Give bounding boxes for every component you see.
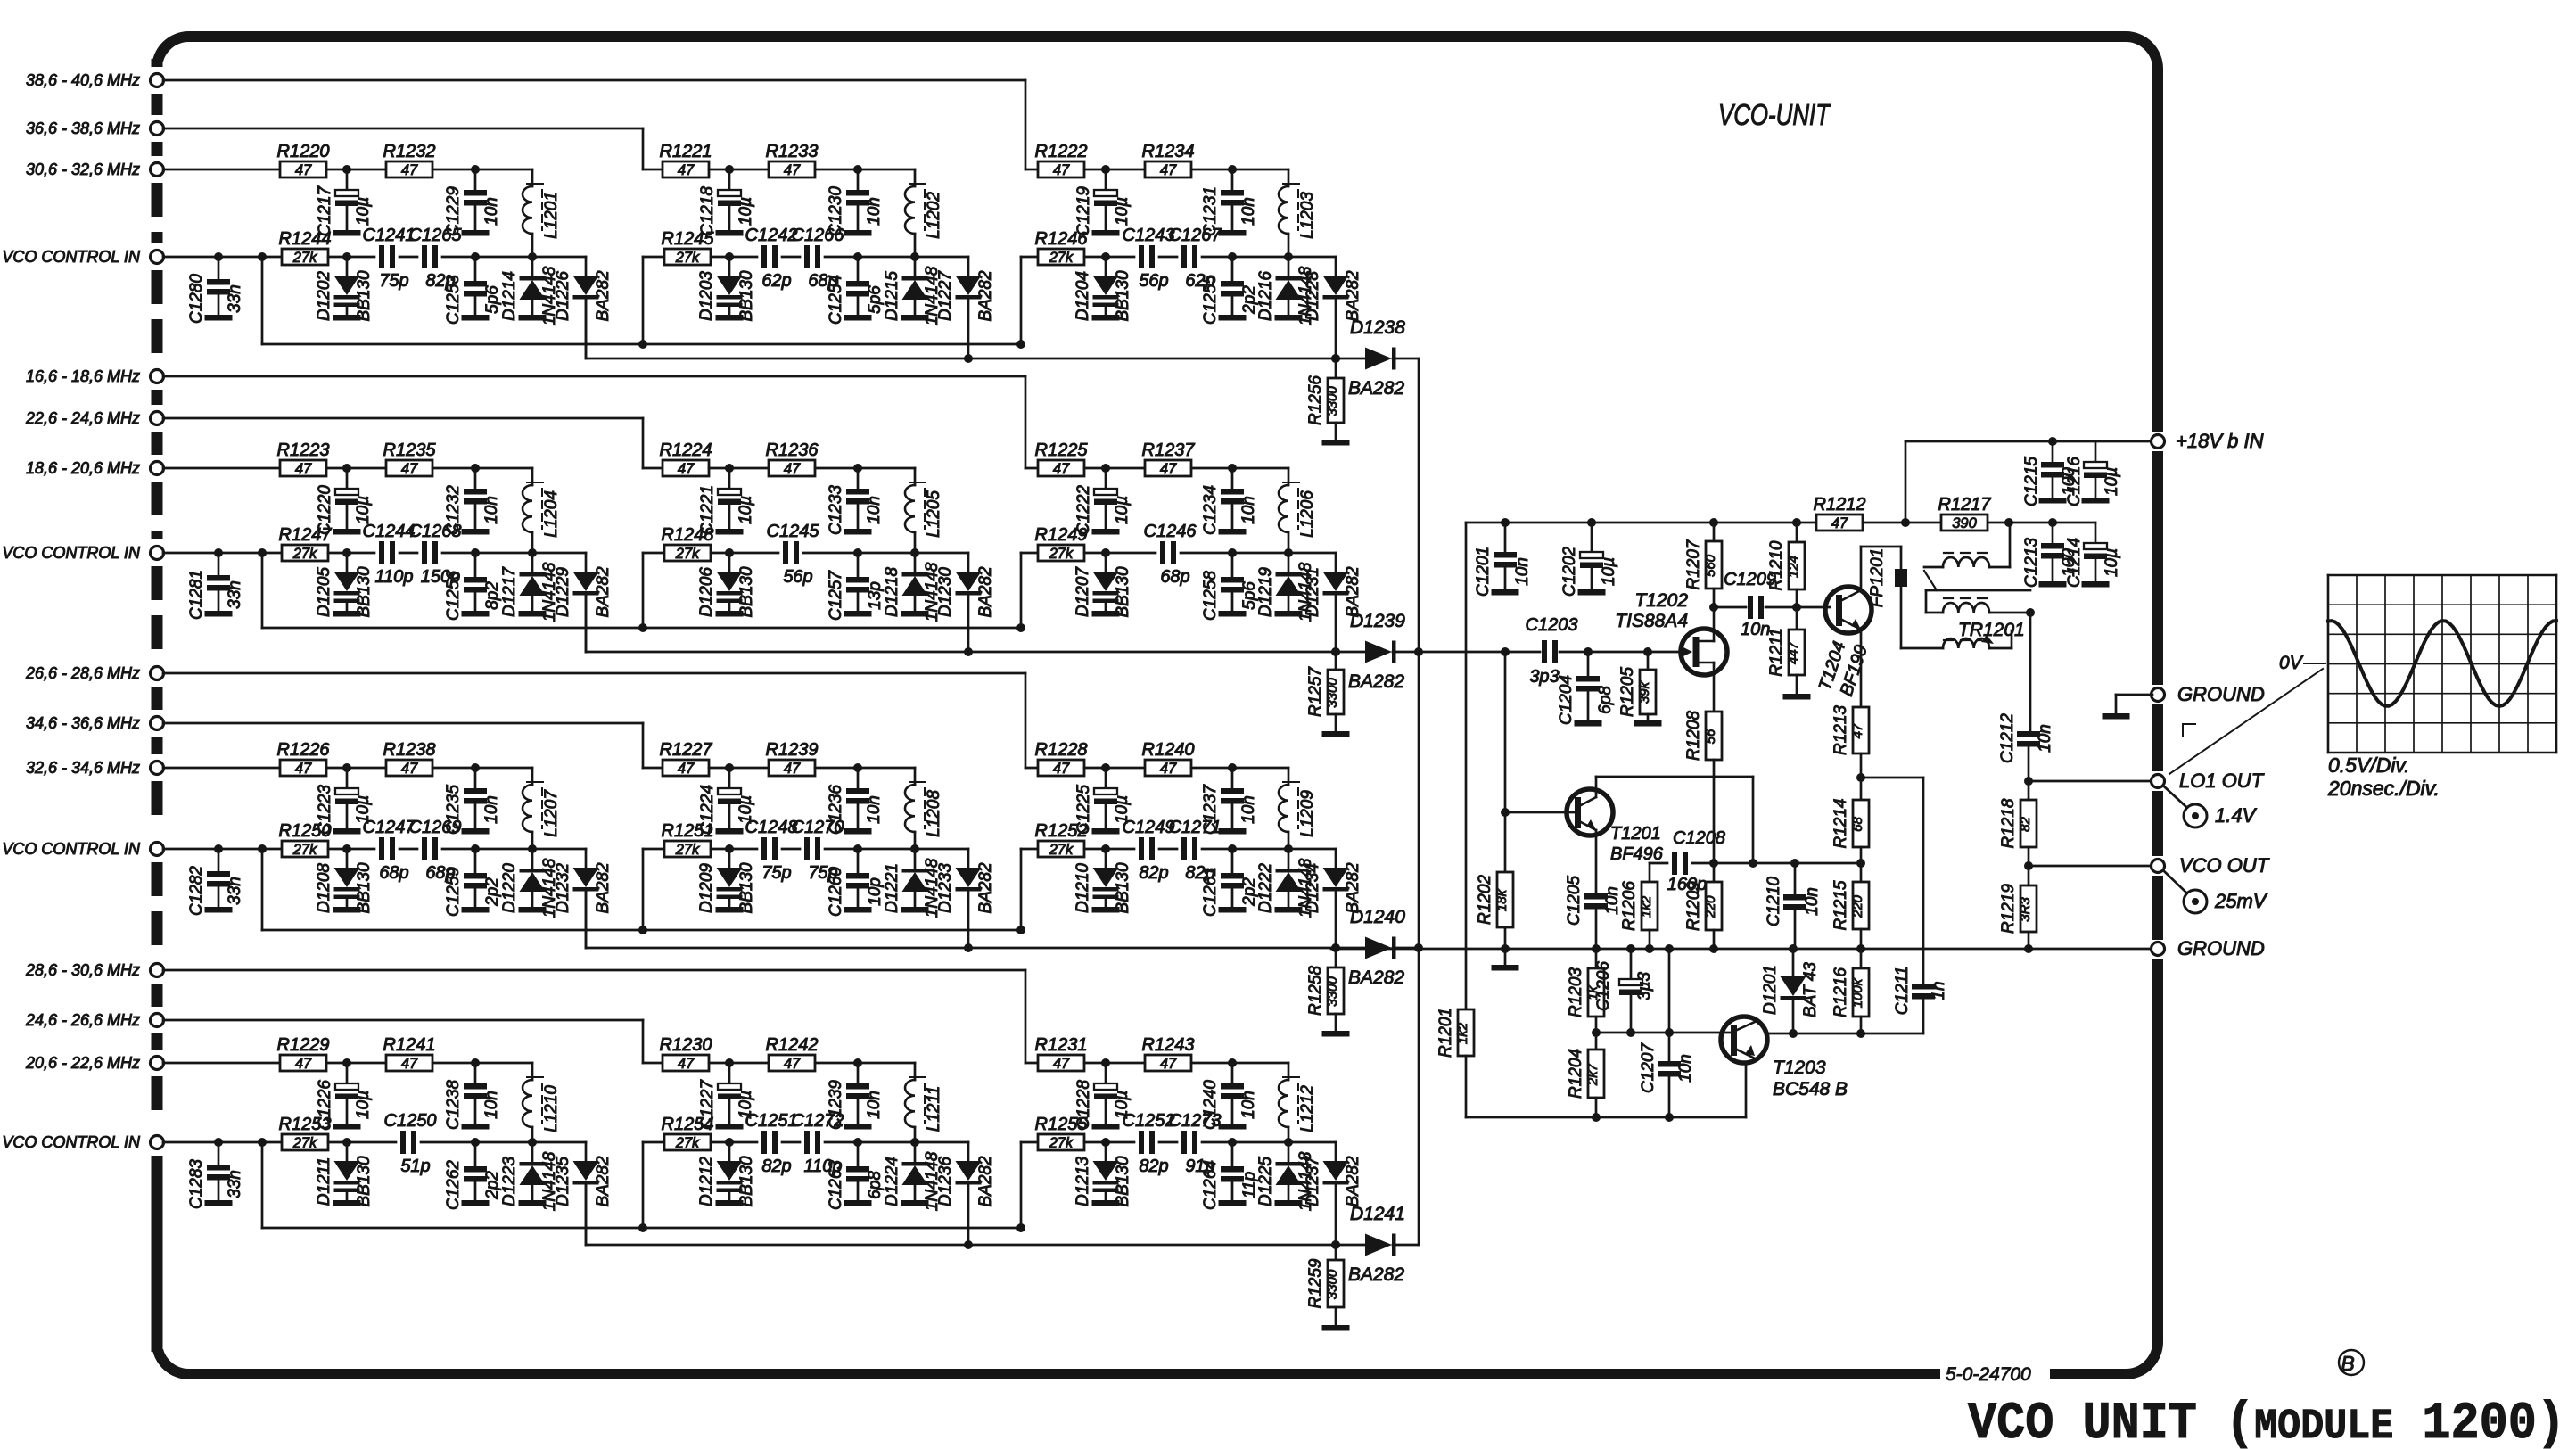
svg-text:10n: 10n xyxy=(1676,1054,1695,1083)
capacitor C1271 82p xyxy=(1181,837,1187,860)
resistor R1247 27k xyxy=(282,545,328,561)
svg-text:C1234: C1234 xyxy=(1201,485,1220,535)
svg-text:33n: 33n xyxy=(226,284,244,313)
svg-text:C1207: C1207 xyxy=(1639,1042,1658,1093)
svg-text:BA282: BA282 xyxy=(594,862,613,913)
wire input feed to R1228 xyxy=(1025,767,1038,770)
resistor R1259 3300 xyxy=(1335,1245,1337,1260)
wire xyxy=(432,467,532,470)
diode D1231 BA282 xyxy=(1335,553,1337,572)
node xyxy=(1284,844,1293,853)
diode D1201 BAT43 xyxy=(1792,949,1795,976)
svg-text:2p2: 2p2 xyxy=(483,877,502,907)
svg-text:18,6 - 20,6 MHz: 18,6 - 20,6 MHz xyxy=(26,459,140,477)
svg-text:BB130: BB130 xyxy=(737,1156,756,1206)
svg-text:C1201: C1201 xyxy=(1474,547,1493,597)
svg-text:TR1201: TR1201 xyxy=(1958,620,2025,640)
svg-text:C1264: C1264 xyxy=(1201,1160,1220,1210)
svg-text:BA282: BA282 xyxy=(1348,1264,1404,1285)
capacitor C1202 10u xyxy=(1587,518,1596,527)
resistor R1234 47 xyxy=(1145,161,1191,177)
svg-text:D1225: D1225 xyxy=(1256,1157,1275,1206)
ground xyxy=(205,1200,233,1206)
svg-text:10n: 10n xyxy=(865,197,884,226)
node xyxy=(528,1138,537,1147)
svg-text:R1207: R1207 xyxy=(1684,539,1703,589)
resistor R1220 47 xyxy=(280,161,326,177)
ground xyxy=(716,529,744,535)
capacitor C1218 10u xyxy=(728,169,731,190)
ground xyxy=(1219,1200,1247,1206)
svg-text:47: 47 xyxy=(1160,162,1177,178)
node xyxy=(1331,647,1340,656)
svg-text:C1250: C1250 xyxy=(384,1111,437,1131)
ground xyxy=(462,1124,490,1130)
wire xyxy=(328,552,374,555)
svg-text:R1240: R1240 xyxy=(1142,740,1195,760)
wire T1201 base xyxy=(1504,652,1507,872)
terminal xyxy=(151,122,164,136)
wire xyxy=(915,552,968,555)
svg-text:1k2: 1k2 xyxy=(1455,1022,1470,1044)
svg-text:BAT 43: BAT 43 xyxy=(1801,962,1820,1017)
ground xyxy=(1322,1325,1350,1331)
svg-text:47: 47 xyxy=(295,761,312,777)
svg-text:D1214: D1214 xyxy=(500,271,519,321)
svg-text:C1259: C1259 xyxy=(444,867,463,917)
ground symbol xyxy=(2116,694,2152,696)
capacitor C1213 100n xyxy=(2048,518,2057,527)
svg-text:BA282: BA282 xyxy=(1344,566,1362,617)
terminal xyxy=(151,667,164,680)
ground xyxy=(462,529,490,535)
node xyxy=(214,252,223,261)
capacitor C1242 62p xyxy=(761,245,767,268)
wire input A band1 xyxy=(163,79,1025,82)
node xyxy=(1228,1138,1237,1147)
node xyxy=(1284,252,1293,261)
wire input feed to R1227 xyxy=(643,767,663,770)
ground xyxy=(1092,907,1120,913)
svg-text:R1223: R1223 xyxy=(277,440,330,460)
oscilloscope graticule xyxy=(2327,575,2330,753)
diode D1223 1N4148 xyxy=(531,1142,534,1162)
svg-text:R1218: R1218 xyxy=(1999,798,2018,848)
svg-text:BA282: BA282 xyxy=(976,862,995,913)
ground xyxy=(2039,498,2067,504)
svg-text:10n: 10n xyxy=(865,795,884,824)
wire xyxy=(532,848,586,851)
wire xyxy=(328,1141,396,1144)
node xyxy=(853,252,862,261)
svg-text:C1273: C1273 xyxy=(1169,1111,1222,1131)
capacitor C1207 10n xyxy=(1668,949,1671,1061)
terminal xyxy=(151,163,164,177)
svg-text:R1211: R1211 xyxy=(1767,628,1786,677)
svg-text:47: 47 xyxy=(678,162,695,178)
svg-text:R1254: R1254 xyxy=(662,1115,714,1134)
svg-text:VCO CONTROL IN: VCO CONTROL IN xyxy=(2,544,141,562)
node xyxy=(1228,844,1237,853)
svg-text:R1255: R1255 xyxy=(1035,1115,1089,1134)
svg-text:C1215: C1215 xyxy=(2022,457,2041,506)
svg-text:R1206: R1206 xyxy=(1620,881,1639,931)
node xyxy=(1101,165,1110,174)
svg-text:FP1201: FP1201 xyxy=(1868,548,1887,608)
svg-text:GROUND: GROUND xyxy=(2177,937,2265,959)
resistor R1206 1k2 xyxy=(1649,863,1651,882)
svg-text:C1253: C1253 xyxy=(444,275,463,325)
wire xyxy=(1863,522,1940,524)
svg-text:R1203: R1203 xyxy=(1567,967,1585,1017)
diode D1216 1N4148 xyxy=(1288,257,1290,276)
wire row to C1211 xyxy=(1861,777,1923,779)
node xyxy=(1016,623,1025,632)
capacitor C1283 33n xyxy=(218,1142,220,1165)
node xyxy=(910,252,919,261)
svg-text:110p: 110p xyxy=(374,567,413,587)
svg-text:47: 47 xyxy=(1850,723,1865,738)
svg-text:BB130: BB130 xyxy=(1114,1156,1132,1206)
capacitor C1219 10u xyxy=(1105,169,1107,190)
capacitor C1272 110p xyxy=(804,1131,810,1154)
wire xyxy=(1159,1141,1177,1144)
capacitor C1273 91p xyxy=(1181,1131,1187,1154)
node xyxy=(342,763,351,772)
resistor R1255 27k xyxy=(1038,1134,1084,1150)
diode D1230 BA282 xyxy=(967,553,970,572)
diode D1220 1N4148 xyxy=(531,849,534,869)
terminal LO1 OUT xyxy=(2152,775,2165,788)
svg-text:BB130: BB130 xyxy=(355,270,374,321)
svg-text:D1236: D1236 xyxy=(936,1157,955,1206)
svg-text:T1203: T1203 xyxy=(1773,1058,1826,1078)
wire control row to R1244 xyxy=(163,256,282,259)
svg-text:R1217: R1217 xyxy=(1938,495,1992,515)
node xyxy=(1592,944,1601,953)
svg-text:C1211: C1211 xyxy=(1893,967,1912,1016)
svg-text:R1244: R1244 xyxy=(279,229,332,249)
wire xyxy=(1084,848,1134,851)
resistor R1226 47 xyxy=(280,760,326,776)
svg-text:C1205: C1205 xyxy=(1565,876,1584,926)
node xyxy=(471,1058,480,1067)
svg-text:C1268: C1268 xyxy=(409,522,462,541)
svg-text:3300: 3300 xyxy=(1325,1269,1340,1299)
ground xyxy=(1219,230,1247,236)
wire output row band1 xyxy=(585,299,588,358)
svg-text:10n: 10n xyxy=(1239,1091,1258,1119)
node xyxy=(853,1058,862,1067)
ground xyxy=(1492,965,1519,971)
svg-text:C1258: C1258 xyxy=(1201,571,1220,621)
diode D1218 1N4148 xyxy=(914,553,917,572)
svg-text:0V: 0V xyxy=(2279,653,2304,673)
svg-text:C1252: C1252 xyxy=(1123,1111,1175,1131)
test point 25mV xyxy=(2164,871,2186,893)
ground xyxy=(716,1200,744,1206)
svg-text:26,6 - 28,6 MHz: 26,6 - 28,6 MHz xyxy=(25,664,140,682)
svg-text:R1227: R1227 xyxy=(660,740,713,760)
svg-text:27k: 27k xyxy=(675,250,700,266)
svg-text:R1210: R1210 xyxy=(1767,540,1786,590)
wire xyxy=(915,848,968,851)
svg-text:L1207: L1207 xyxy=(542,789,561,837)
wire control branch down xyxy=(261,257,264,344)
node xyxy=(1331,354,1340,363)
svg-text:BA282: BA282 xyxy=(976,270,995,321)
capacitor C1247 68p xyxy=(379,837,384,860)
ground xyxy=(1092,529,1120,535)
wire control row to R1251 xyxy=(642,849,645,930)
svg-text:47: 47 xyxy=(678,461,695,477)
node xyxy=(1101,1138,1110,1147)
node xyxy=(1284,1138,1293,1147)
node xyxy=(214,548,223,557)
resistor R1201 1k2 xyxy=(1458,1009,1474,1056)
svg-text:3R3: 3R3 xyxy=(2018,897,2033,922)
terminal xyxy=(151,370,164,383)
wire input feed to R1220 xyxy=(163,169,280,171)
capacitor C1235 10n xyxy=(474,768,477,788)
capacitor C1206 3u3 xyxy=(1630,949,1633,979)
wire xyxy=(709,1062,769,1065)
node xyxy=(964,943,973,952)
resistor R1249 27k xyxy=(1038,545,1084,561)
node xyxy=(725,763,734,772)
wire control row to R1253 xyxy=(163,1141,282,1144)
ground xyxy=(519,907,547,913)
resistor R1204 2k7 xyxy=(1595,1033,1598,1050)
svg-text:51p: 51p xyxy=(400,1157,430,1176)
svg-text:56p: 56p xyxy=(783,567,812,587)
svg-text:10n: 10n xyxy=(865,496,884,524)
svg-text:BB130: BB130 xyxy=(355,1156,374,1206)
wire xyxy=(711,1141,757,1144)
svg-text:47: 47 xyxy=(401,1056,418,1072)
diode D1214 1N4148 xyxy=(531,257,534,276)
capacitor C1249 82p xyxy=(1139,837,1144,860)
node xyxy=(1228,252,1237,261)
wire xyxy=(825,1141,858,1144)
svg-text:100k: 100k xyxy=(1850,977,1865,1008)
resistor R1203 1k xyxy=(1595,949,1598,968)
wire control distribution row band3 xyxy=(262,929,1021,932)
inductor L1209 xyxy=(1288,768,1290,785)
node xyxy=(964,1240,973,1249)
wire xyxy=(475,552,532,555)
node xyxy=(471,548,480,557)
svg-text:D1203: D1203 xyxy=(697,271,716,321)
svg-text:390: 390 xyxy=(1952,515,1977,531)
svg-text:R1256: R1256 xyxy=(1306,375,1325,425)
terminal +18V b IN xyxy=(2152,435,2165,449)
capacitor C1240 10n xyxy=(1231,1063,1234,1083)
svg-text:C1280: C1280 xyxy=(187,274,206,324)
svg-text:BA282: BA282 xyxy=(594,566,613,617)
wire xyxy=(475,848,532,851)
wire xyxy=(1159,848,1177,851)
capacitor C1266 68p xyxy=(804,245,810,268)
svg-text:L1202: L1202 xyxy=(925,192,943,239)
svg-text:C1251: C1251 xyxy=(745,1111,798,1131)
node xyxy=(258,844,267,853)
capacitor C1257 13p xyxy=(857,553,860,577)
svg-text:D1215: D1215 xyxy=(883,271,901,321)
svg-text:C1272: C1272 xyxy=(792,1111,844,1131)
ground xyxy=(716,315,744,321)
svg-text:75p: 75p xyxy=(761,863,791,883)
svg-text:BB130: BB130 xyxy=(737,270,756,321)
node xyxy=(910,844,919,853)
wire xyxy=(858,256,915,259)
svg-text:C1263: C1263 xyxy=(827,1160,845,1210)
svg-text:R1237: R1237 xyxy=(1142,440,1196,460)
scope probe line xyxy=(2169,669,2323,774)
svg-text:L1205: L1205 xyxy=(925,490,943,538)
node xyxy=(1501,944,1510,953)
svg-text:C1260: C1260 xyxy=(827,867,845,917)
wire xyxy=(475,256,532,259)
node xyxy=(1331,354,1340,363)
svg-text:47: 47 xyxy=(678,1056,695,1072)
svg-text:10n: 10n xyxy=(1239,197,1258,226)
svg-text:R1236: R1236 xyxy=(766,440,819,460)
capacitor C1208 160p xyxy=(1672,852,1677,875)
wire xyxy=(442,552,475,555)
svg-text:82p: 82p xyxy=(761,1157,791,1176)
svg-text:BB130: BB130 xyxy=(1114,270,1132,321)
wire xyxy=(326,169,386,171)
node xyxy=(1645,944,1654,953)
resistor R1209 220 xyxy=(1706,882,1722,930)
svg-text:10p: 10p xyxy=(866,877,885,906)
diode D1235 BA282 xyxy=(585,1142,588,1161)
svg-text:C1245: C1245 xyxy=(767,522,820,541)
varicap diode D1212 BB130 xyxy=(728,1142,731,1161)
svg-text:C1256: C1256 xyxy=(444,571,463,621)
svg-text:C1238: C1238 xyxy=(444,1080,463,1130)
svg-text:47: 47 xyxy=(1053,461,1070,477)
wire control row to R1250 xyxy=(163,848,282,851)
ground xyxy=(462,907,490,913)
svg-text:10µ: 10µ xyxy=(354,1091,373,1119)
svg-text:10n: 10n xyxy=(1513,557,1532,586)
svg-text:32,6 - 34,6 MHz: 32,6 - 34,6 MHz xyxy=(26,759,140,777)
capacitor C1244 110p xyxy=(379,541,384,564)
svg-text:220: 220 xyxy=(1850,894,1865,918)
wire control row to R1246 xyxy=(1020,257,1023,344)
svg-text:27k: 27k xyxy=(1049,546,1074,562)
revision mark B xyxy=(2339,1350,2364,1375)
ground xyxy=(205,315,233,321)
ground xyxy=(462,1200,490,1206)
ground xyxy=(716,907,744,913)
ground xyxy=(901,315,929,321)
svg-text:GROUND: GROUND xyxy=(2177,683,2265,705)
wire output row band2 xyxy=(585,595,588,652)
ground xyxy=(1275,907,1303,913)
capacitor C1248 75p xyxy=(761,837,767,860)
wire xyxy=(1202,1141,1232,1144)
right frame edge gaps xyxy=(2151,432,2165,451)
resistor R1218 82 xyxy=(2020,800,2037,847)
node xyxy=(725,1138,734,1147)
node xyxy=(1414,647,1423,656)
ground xyxy=(1783,694,1811,700)
wire xyxy=(532,552,586,555)
terminal xyxy=(151,74,164,87)
svg-text:R1253: R1253 xyxy=(279,1115,332,1134)
svg-text:R1224: R1224 xyxy=(660,440,712,460)
terminal xyxy=(151,717,164,730)
svg-text:R1231: R1231 xyxy=(1035,1035,1088,1055)
capacitor C1264 11p xyxy=(1231,1142,1234,1166)
wire xyxy=(815,467,915,470)
node xyxy=(1284,548,1293,557)
resistor R1231 47 xyxy=(1038,1055,1084,1071)
ferrite bead FP1201 xyxy=(1900,547,1903,648)
node xyxy=(853,548,862,557)
resistor R1225 47 xyxy=(1038,460,1084,476)
svg-text:2k7: 2k7 xyxy=(1585,1063,1601,1086)
svg-text:LO1 OUT: LO1 OUT xyxy=(2179,770,2265,792)
svg-text:VCO OUT: VCO OUT xyxy=(2179,854,2270,877)
svg-text:R1229: R1229 xyxy=(277,1035,330,1055)
wire control distribution row band4 xyxy=(262,1227,1021,1230)
wire xyxy=(432,767,532,770)
svg-text:36,6 - 38,6 MHz: 36,6 - 38,6 MHz xyxy=(26,119,140,137)
node xyxy=(2004,518,2013,527)
capacitor C1209 10n xyxy=(1748,596,1753,619)
diode D1240 BA282 xyxy=(1365,937,1392,959)
resistor R1240 47 xyxy=(1145,760,1191,776)
node xyxy=(342,844,351,853)
resistor R1251 27k xyxy=(664,841,711,857)
svg-text:D1223: D1223 xyxy=(500,1157,519,1206)
node xyxy=(258,548,267,557)
node xyxy=(1643,647,1652,656)
wire xyxy=(1084,552,1156,555)
svg-text:R1228: R1228 xyxy=(1035,740,1088,760)
wire control distribution row band1 xyxy=(262,343,1021,346)
node xyxy=(910,548,919,557)
svg-text:5p6: 5p6 xyxy=(483,285,502,314)
capacitor C1224 10u xyxy=(728,768,731,788)
node xyxy=(1790,859,1799,868)
node xyxy=(258,1138,267,1147)
wire input feed to R1223 xyxy=(163,467,280,470)
ground xyxy=(844,611,872,617)
svg-text:BA282: BA282 xyxy=(1344,270,1362,321)
wire control branch down xyxy=(261,553,264,628)
svg-text:C1246: C1246 xyxy=(1144,522,1197,541)
svg-text:10µ: 10µ xyxy=(354,496,373,524)
wire xyxy=(432,1062,532,1065)
svg-text:27k: 27k xyxy=(675,842,700,858)
wire xyxy=(1191,467,1288,470)
svg-text:L1212: L1212 xyxy=(1298,1085,1317,1132)
svg-text:6p8: 6p8 xyxy=(1596,686,1615,714)
svg-text:R1245: R1245 xyxy=(662,229,715,249)
svg-text:10n: 10n xyxy=(1603,886,1622,915)
node xyxy=(1789,1029,1798,1038)
svg-text:10µ: 10µ xyxy=(1600,557,1618,586)
terminal xyxy=(151,762,164,775)
svg-text:R1251: R1251 xyxy=(662,821,714,841)
svg-text:68: 68 xyxy=(1850,817,1865,832)
node xyxy=(1856,773,1865,782)
